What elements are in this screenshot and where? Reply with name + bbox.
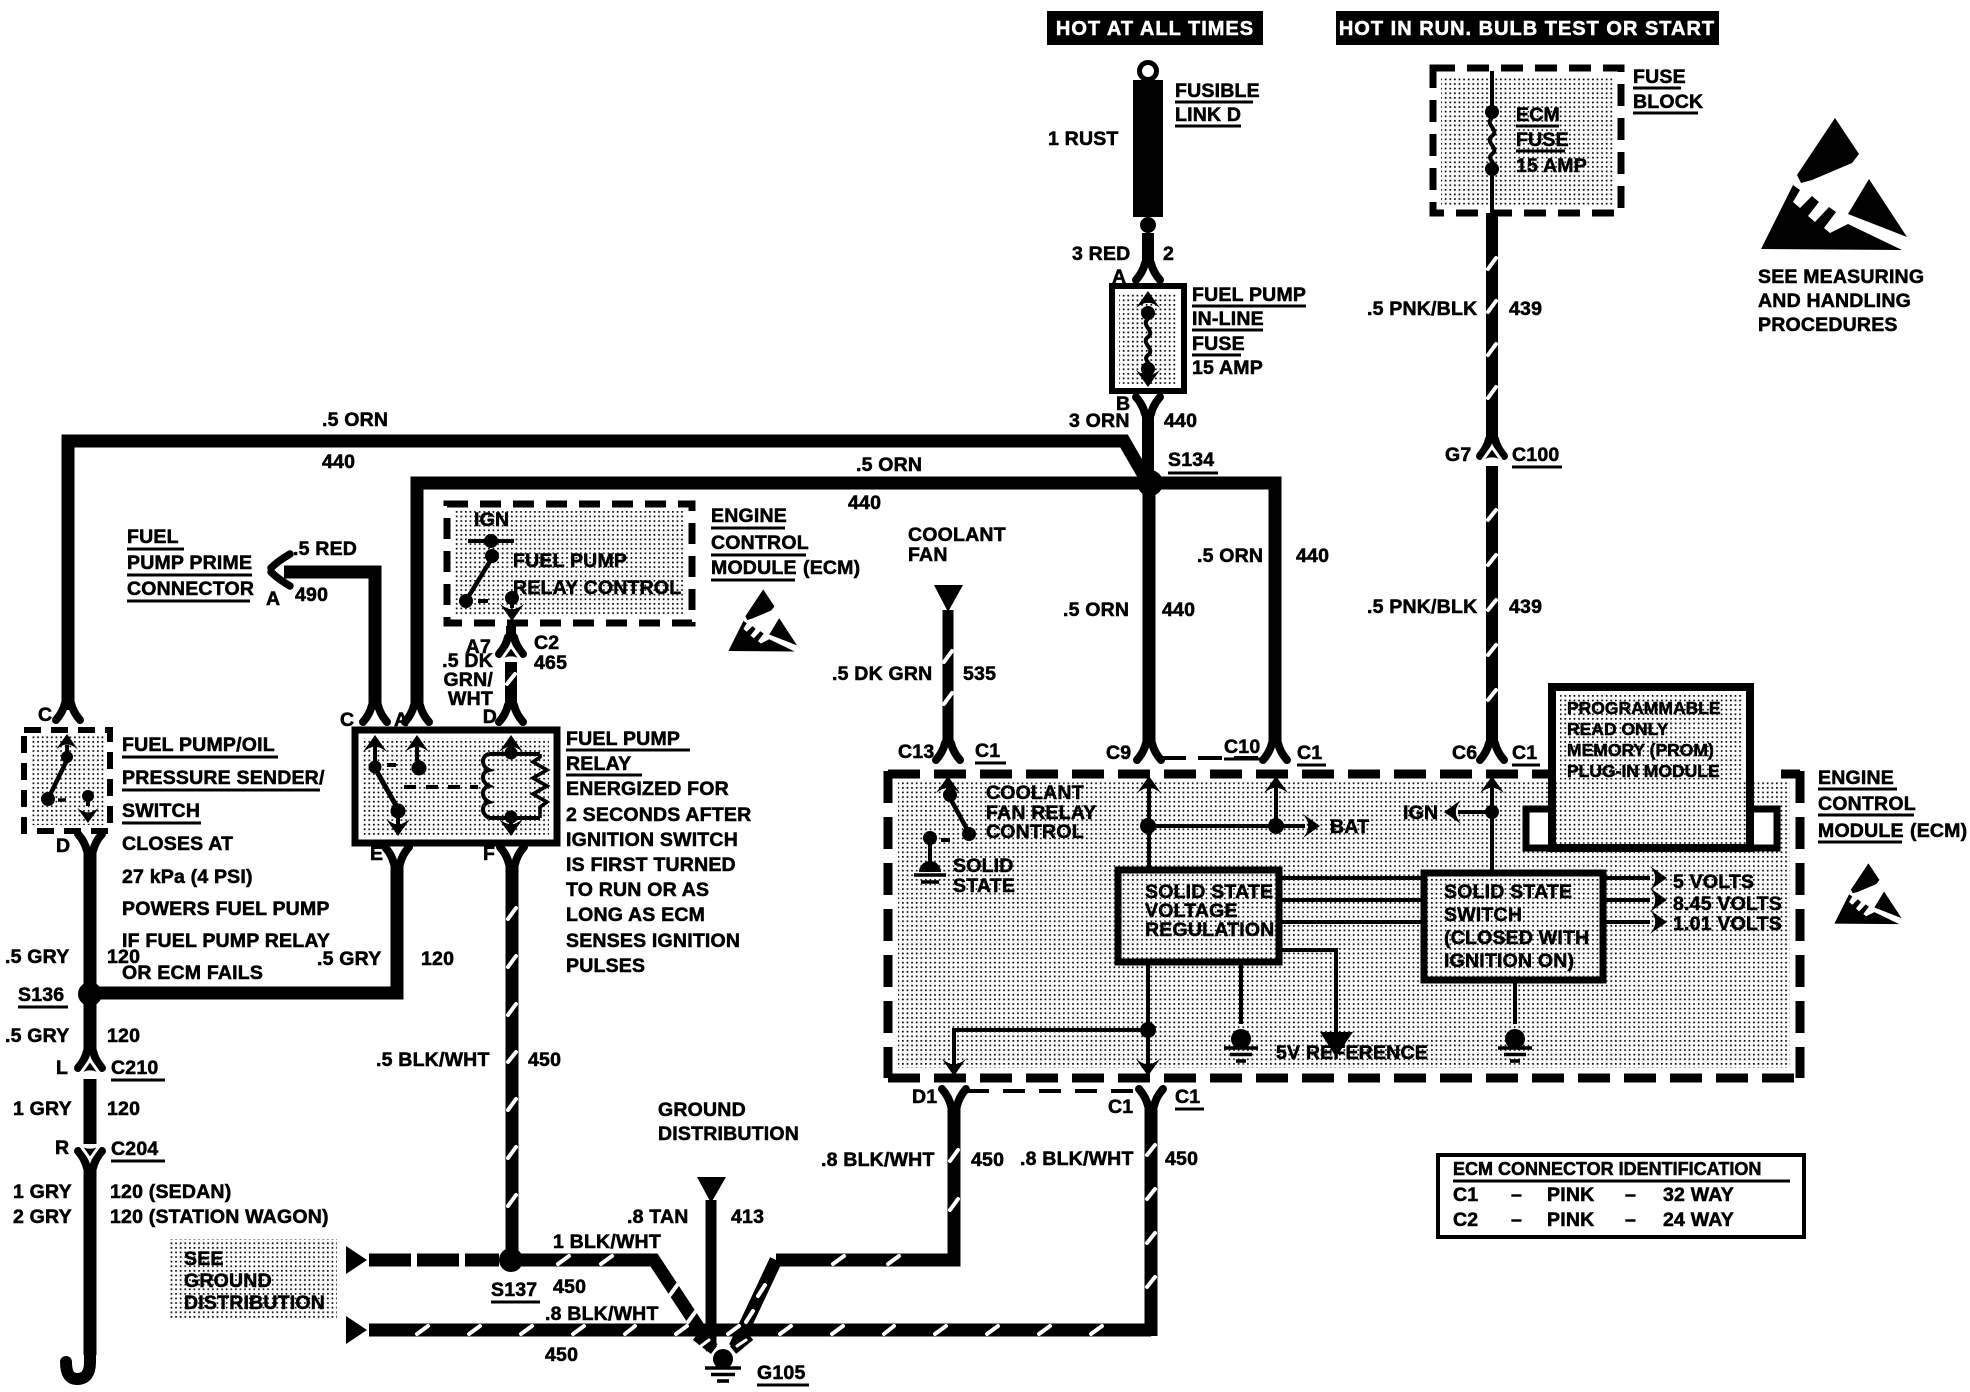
wire D1 .8 BLK/WHT 450 bbox=[776, 1104, 954, 1260]
connector C100 pair bbox=[1480, 439, 1504, 456]
coolant ground arrow .8 TAN bbox=[697, 1177, 726, 1203]
fuse element symbol bbox=[1136, 291, 1160, 308]
svg-text:–: – bbox=[1625, 1209, 1636, 1231]
svg-text:PINK: PINK bbox=[1547, 1209, 1594, 1231]
svg-text:OR ECM FAILS: OR ECM FAILS bbox=[122, 962, 263, 984]
connector fork C10 bbox=[1263, 743, 1287, 760]
svg-text:SOLID: SOLID bbox=[953, 855, 1014, 877]
wire sender D to S136 bbox=[84, 848, 97, 988]
svg-text:.5 ORN: .5 ORN bbox=[1197, 545, 1263, 567]
svg-text:5V REFERENCE: 5V REFERENCE bbox=[1276, 1042, 1428, 1064]
svg-text:C2: C2 bbox=[1453, 1209, 1478, 1231]
svg-text:120: 120 bbox=[107, 1025, 140, 1047]
svg-text:HOT AT ALL TIMES: HOT AT ALL TIMES bbox=[1056, 18, 1254, 40]
svg-text:FUSE: FUSE bbox=[1633, 66, 1686, 88]
dashed wire to S137 bbox=[369, 1254, 499, 1267]
wire .5 ORN 440 to relay A bbox=[417, 483, 1141, 707]
svg-text:3 ORN: 3 ORN bbox=[1069, 410, 1130, 432]
svg-text:8.45 VOLTS: 8.45 VOLTS bbox=[1673, 893, 1782, 915]
svg-text:5 VOLTS: 5 VOLTS bbox=[1673, 871, 1754, 893]
svg-text:SENSES IGNITION: SENSES IGNITION bbox=[566, 930, 740, 952]
svg-text:BLOCK: BLOCK bbox=[1633, 91, 1703, 113]
connector fork relay A bbox=[405, 705, 429, 722]
svg-text:1 BLK/WHT: 1 BLK/WHT bbox=[553, 1231, 661, 1253]
solid state contact symbol bbox=[928, 844, 932, 862]
junction dot C9 BAT bbox=[1140, 818, 1156, 834]
svg-text:450: 450 bbox=[545, 1344, 578, 1366]
svg-text:L: L bbox=[56, 1057, 68, 1079]
svg-text:CONTROL: CONTROL bbox=[711, 532, 809, 554]
dashed link D1 C1 bbox=[967, 1089, 1138, 1093]
svg-text:IF FUEL PUMP RELAY: IF FUEL PUMP RELAY bbox=[122, 930, 330, 952]
svg-text:FUEL PUMP/OIL: FUEL PUMP/OIL bbox=[122, 734, 275, 756]
splice S134 dot bbox=[1137, 470, 1163, 496]
svg-text:FUEL PUMP: FUEL PUMP bbox=[1192, 284, 1306, 306]
svg-text:R: R bbox=[55, 1137, 69, 1159]
ground under switch bbox=[1513, 980, 1517, 1024]
svg-text:ECM: ECM bbox=[1516, 104, 1560, 126]
fuel pump relay control box bbox=[454, 511, 685, 616]
svg-text:PROCEDURES: PROCEDURES bbox=[1758, 314, 1898, 336]
connector A fork bbox=[1136, 263, 1160, 280]
svg-text:450: 450 bbox=[971, 1149, 1004, 1171]
ESD warning symbol large bbox=[1761, 118, 1907, 250]
svg-text:C1: C1 bbox=[1175, 1086, 1200, 1108]
fuel pump oil pressure sender box bbox=[30, 736, 104, 825]
relay switch bbox=[369, 761, 382, 774]
svg-text:STATE: STATE bbox=[953, 875, 1015, 897]
svg-text:465: 465 bbox=[534, 652, 567, 674]
svg-text:ENGINE: ENGINE bbox=[711, 505, 787, 527]
svg-text:.5 RED: .5 RED bbox=[293, 538, 357, 560]
svg-text:DISTRIBUTION: DISTRIBUTION bbox=[658, 1123, 799, 1145]
svg-text:.5 ORN: .5 ORN bbox=[322, 409, 388, 431]
connector fork C1 bottom bbox=[1139, 1089, 1163, 1106]
note SEE GROUND DISTRIBUTION bbox=[168, 1239, 337, 1320]
connector fork C6 bbox=[1480, 743, 1504, 760]
connector B fork bbox=[1136, 397, 1160, 414]
connector fork relay E bbox=[385, 847, 409, 864]
svg-text:GROUND: GROUND bbox=[184, 1270, 272, 1292]
power feed banner HOT IN RUN BULB TEST OR START bbox=[1336, 11, 1719, 45]
svg-text:F: F bbox=[483, 843, 495, 865]
svg-text:C1: C1 bbox=[1512, 742, 1537, 764]
splice S136 dot bbox=[78, 982, 102, 1006]
svg-text:C1: C1 bbox=[1453, 1184, 1478, 1206]
svg-text:RELAY: RELAY bbox=[566, 753, 631, 775]
svg-text:.8 BLK/WHT: .8 BLK/WHT bbox=[1020, 1148, 1134, 1170]
svg-text:GROUND: GROUND bbox=[658, 1099, 746, 1121]
svg-text:FUEL: FUEL bbox=[127, 526, 179, 548]
svg-text:IS FIRST TURNED: IS FIRST TURNED bbox=[566, 854, 736, 876]
svg-text:CONNECTOR: CONNECTOR bbox=[127, 578, 254, 600]
svg-text:CONTROL: CONTROL bbox=[1818, 793, 1916, 815]
svg-text:–: – bbox=[1511, 1209, 1522, 1231]
svg-text:PRESSURE SENDER/: PRESSURE SENDER/ bbox=[122, 767, 325, 789]
svg-text:ECM CONNECTOR IDENTIFICATION: ECM CONNECTOR IDENTIFICATION bbox=[1453, 1159, 1761, 1179]
svg-text:2 GRY: 2 GRY bbox=[13, 1206, 72, 1228]
sender switch symbol bbox=[56, 734, 78, 749]
svg-text:PLUG-IN MODULE: PLUG-IN MODULE bbox=[1567, 761, 1720, 781]
5V reference line bbox=[1279, 950, 1336, 1032]
ground under vreg bbox=[1239, 962, 1243, 1024]
svg-text:440: 440 bbox=[322, 451, 355, 473]
wire .5 RED to relay C bbox=[284, 572, 375, 707]
wire .5 DK GRN 535 bbox=[943, 610, 954, 745]
coolant fan relay switch bbox=[943, 788, 957, 802]
connector fork relay D bbox=[499, 705, 523, 722]
svg-text:.5 GRY: .5 GRY bbox=[5, 1025, 69, 1047]
junction dot vreg C1 bbox=[1140, 1022, 1156, 1038]
svg-text:.5 DK GRN: .5 DK GRN bbox=[832, 663, 932, 685]
wire S136 to relay E bbox=[96, 861, 397, 993]
svg-text:C2: C2 bbox=[534, 632, 559, 654]
svg-text:2 SECONDS AFTER: 2 SECONDS AFTER bbox=[566, 804, 751, 826]
svg-text:D1: D1 bbox=[912, 1086, 937, 1108]
svg-text:120: 120 bbox=[107, 1098, 140, 1120]
wire C9 internal bbox=[1147, 788, 1151, 870]
fusible link D symbol bbox=[1140, 63, 1157, 80]
relay pin C arrow bbox=[363, 735, 387, 752]
svg-text:AND HANDLING: AND HANDLING bbox=[1758, 290, 1911, 312]
wire bottom 450 horizontal bbox=[369, 1324, 1151, 1337]
svg-text:.5 PNK/BLK: .5 PNK/BLK bbox=[1367, 596, 1477, 618]
svg-text:440: 440 bbox=[848, 492, 881, 514]
svg-text:FUSIBLE: FUSIBLE bbox=[1175, 80, 1260, 102]
svg-text:.5 ORN: .5 ORN bbox=[856, 454, 922, 476]
dashed link C9 C10 bbox=[1162, 756, 1268, 760]
wire 439 pnk/blk lower bbox=[1486, 466, 1498, 743]
wire fuse B to S134 bbox=[1142, 410, 1154, 478]
svg-text:ENERGIZED FOR: ENERGIZED FOR bbox=[566, 778, 729, 800]
svg-text:C: C bbox=[38, 704, 52, 726]
svg-text:FUSE: FUSE bbox=[1192, 333, 1245, 355]
svg-text:C10: C10 bbox=[1224, 736, 1260, 758]
svg-text:IGNITION SWITCH: IGNITION SWITCH bbox=[566, 829, 738, 851]
svg-text:1 RUST: 1 RUST bbox=[1048, 128, 1119, 150]
connector fork C sender bbox=[56, 703, 80, 720]
coolant fan arrow bbox=[934, 585, 963, 612]
svg-text:FUSE: FUSE bbox=[1516, 129, 1569, 151]
svg-text:HOT IN RUN. BULB TEST OR START: HOT IN RUN. BULB TEST OR START bbox=[1339, 18, 1715, 40]
svg-text:440: 440 bbox=[1162, 599, 1195, 621]
svg-text:C100: C100 bbox=[1512, 444, 1559, 466]
svg-text:.5 ORN: .5 ORN bbox=[1063, 599, 1129, 621]
svg-text:C13: C13 bbox=[898, 741, 934, 763]
connector C2 pair bbox=[499, 637, 523, 654]
svg-text:PULSES: PULSES bbox=[566, 955, 645, 977]
svg-text:C210: C210 bbox=[111, 1057, 158, 1079]
fuse block box bbox=[1441, 76, 1613, 205]
svg-text:(ECM): (ECM) bbox=[1910, 820, 1967, 842]
wire C6 internal bbox=[1490, 788, 1494, 872]
svg-text:120: 120 bbox=[107, 946, 140, 968]
svg-text:SWITCH: SWITCH bbox=[1444, 904, 1522, 926]
svg-text:C9: C9 bbox=[1106, 742, 1131, 764]
wire .5 DK GRN/WHT bbox=[506, 626, 516, 638]
svg-text:.5 GRY: .5 GRY bbox=[317, 948, 381, 970]
ECM pin arrow C6 bbox=[1480, 776, 1504, 793]
offpage arrow upper bbox=[346, 1246, 367, 1274]
svg-text:1.01 VOLTS: 1.01 VOLTS bbox=[1673, 913, 1782, 935]
ECM pin arrow C13 bbox=[936, 776, 960, 793]
wire .5 ORN 440 down to C9 bbox=[1143, 489, 1156, 745]
svg-text:G7: G7 bbox=[1445, 444, 1471, 466]
svg-text:C1: C1 bbox=[1297, 742, 1322, 764]
svg-text:C204: C204 bbox=[111, 1138, 158, 1160]
G105 stub left bbox=[696, 1336, 714, 1350]
svg-text:2: 2 bbox=[1163, 243, 1174, 265]
connector fork C13 bbox=[936, 743, 960, 760]
connector fork C9 bbox=[1137, 743, 1161, 760]
svg-text:MEMORY (PROM): MEMORY (PROM) bbox=[1567, 740, 1714, 760]
connector fork relay F bbox=[500, 847, 524, 864]
wire C204 down to bottom hook bbox=[84, 1167, 97, 1355]
svg-text:450: 450 bbox=[528, 1049, 561, 1071]
splice S137 dot bbox=[499, 1248, 523, 1272]
svg-text:D: D bbox=[483, 706, 497, 728]
BAT line bbox=[1148, 824, 1305, 828]
wire S137 to G105 bbox=[520, 1260, 712, 1348]
svg-text:MODULE: MODULE bbox=[711, 557, 797, 579]
lines voltage reg to switch bbox=[1279, 876, 1424, 880]
ESD warning symbol small right bbox=[1834, 863, 1901, 924]
wire C10 internal bbox=[1274, 788, 1278, 822]
svg-text:450: 450 bbox=[1165, 1148, 1198, 1170]
svg-text:PROGRAMMABLE: PROGRAMMABLE bbox=[1567, 698, 1721, 718]
connector fork relay C bbox=[363, 705, 387, 722]
svg-text:FUEL PUMP: FUEL PUMP bbox=[566, 728, 680, 750]
fuel pump in-line fuse box bbox=[1119, 293, 1177, 384]
wire 439 pnk/blk upper bbox=[1486, 213, 1498, 441]
wire vreg to C1 exit bbox=[1146, 962, 1150, 1066]
svg-text:.5 BLK/WHT: .5 BLK/WHT bbox=[376, 1049, 490, 1071]
wire vreg to D1 exit bbox=[954, 1030, 1142, 1066]
svg-text:439: 439 bbox=[1509, 298, 1542, 320]
svg-text:S137: S137 bbox=[491, 1279, 537, 1301]
svg-text:BAT: BAT bbox=[1330, 816, 1369, 838]
svg-text:15 AMP: 15 AMP bbox=[1192, 357, 1263, 379]
svg-text:TO RUN OR AS: TO RUN OR AS bbox=[566, 879, 709, 901]
svg-text:IGNITION ON): IGNITION ON) bbox=[1444, 950, 1574, 972]
svg-text:FAN: FAN bbox=[908, 544, 948, 566]
engine control module box bbox=[898, 781, 1790, 1068]
svg-text:PINK: PINK bbox=[1547, 1184, 1594, 1206]
IGN arrow bbox=[1458, 810, 1492, 814]
ESD warning symbol small left bbox=[728, 589, 797, 651]
wire .5 ORN 440 branch to C10 bbox=[1158, 483, 1275, 745]
svg-text:D: D bbox=[56, 835, 70, 857]
G105 stub right bbox=[733, 1336, 750, 1350]
svg-text:1 GRY: 1 GRY bbox=[13, 1098, 72, 1120]
junction dot C10 BAT bbox=[1268, 818, 1284, 834]
svg-text:15 AMP: 15 AMP bbox=[1516, 155, 1587, 177]
svg-text:C1: C1 bbox=[975, 740, 1000, 762]
svg-text:.8 BLK/WHT: .8 BLK/WHT bbox=[821, 1149, 935, 1171]
ECM exit arrow D1 bbox=[942, 1059, 966, 1076]
PROM plug-in module box bbox=[1526, 809, 1552, 848]
ECM fuse element bbox=[1490, 71, 1494, 106]
svg-text:450: 450 bbox=[553, 1276, 586, 1298]
relay linkage dashed bbox=[404, 785, 478, 789]
svg-text:A: A bbox=[266, 588, 280, 610]
svg-text:CONTROL: CONTROL bbox=[986, 821, 1084, 843]
svg-text:C1: C1 bbox=[1108, 1096, 1133, 1118]
svg-text:IGN: IGN bbox=[474, 509, 509, 531]
connector fork D sender bbox=[78, 834, 102, 851]
svg-text:535: 535 bbox=[963, 663, 996, 685]
table ECM CONNECTOR IDENTIFICATION bbox=[1438, 1155, 1804, 1237]
wire .5 BLK/WHT 450 bbox=[506, 861, 519, 1252]
svg-text:IGN: IGN bbox=[1403, 802, 1438, 824]
relay coil bbox=[505, 747, 518, 760]
svg-text:24 WAY: 24 WAY bbox=[1663, 1209, 1734, 1231]
fuel pump prime connector fork bbox=[271, 554, 290, 586]
power feed banner HOT AT ALL TIMES bbox=[1047, 11, 1263, 45]
wire fusible link to fuse A bbox=[1142, 233, 1154, 263]
svg-text:REGULATION: REGULATION bbox=[1145, 919, 1274, 941]
svg-text:S134: S134 bbox=[1168, 449, 1214, 471]
svg-text:C6: C6 bbox=[1452, 742, 1477, 764]
svg-text:.5 GRY: .5 GRY bbox=[5, 946, 69, 968]
svg-text:POWERS FUEL PUMP: POWERS FUEL PUMP bbox=[122, 898, 330, 920]
svg-text:PUMP PRIME: PUMP PRIME bbox=[127, 552, 252, 574]
relay pin A arrow bbox=[405, 735, 429, 752]
svg-text:IN-LINE: IN-LINE bbox=[1192, 308, 1264, 330]
svg-text:(CLOSED WITH: (CLOSED WITH bbox=[1444, 927, 1589, 949]
svg-text:3 RED: 3 RED bbox=[1072, 243, 1130, 265]
ECM pin arrow C9 bbox=[1137, 776, 1161, 793]
svg-text:LONG AS ECM: LONG AS ECM bbox=[566, 904, 705, 926]
svg-text:.8 BLK/WHT: .8 BLK/WHT bbox=[545, 1303, 659, 1325]
svg-text:SWITCH: SWITCH bbox=[122, 800, 200, 822]
svg-text:RELAY CONTROL: RELAY CONTROL bbox=[513, 577, 681, 599]
connector C204 pair bbox=[78, 1151, 102, 1168]
svg-text:–: – bbox=[1625, 1184, 1636, 1206]
svg-text:439: 439 bbox=[1509, 596, 1542, 618]
solid state voltage regulation box bbox=[1125, 877, 1272, 955]
output arrows volts bbox=[1603, 876, 1650, 880]
fuel pump relay box bbox=[363, 738, 549, 835]
svg-text:SOLID STATE: SOLID STATE bbox=[1444, 881, 1572, 903]
svg-text:1 GRY: 1 GRY bbox=[13, 1181, 72, 1203]
svg-text:DISTRIBUTION: DISTRIBUTION bbox=[184, 1292, 325, 1314]
relay pin D arrow bbox=[499, 735, 523, 752]
hatch marks on wires bbox=[1488, 258, 1496, 269]
svg-text:440: 440 bbox=[1296, 545, 1329, 567]
offpage arrow lower bbox=[346, 1316, 367, 1344]
svg-text:–: – bbox=[1511, 1184, 1522, 1206]
svg-text:440: 440 bbox=[1164, 410, 1197, 432]
connector fork D1 bbox=[942, 1089, 966, 1106]
svg-text:(ECM): (ECM) bbox=[803, 557, 860, 579]
wire C210 to C204 bbox=[84, 1079, 97, 1144]
svg-text:E: E bbox=[370, 843, 383, 865]
wire S136 down bbox=[84, 1000, 97, 1054]
connector C210 pair bbox=[78, 1051, 102, 1068]
svg-text:ENGINE: ENGINE bbox=[1818, 767, 1894, 789]
svg-text:READ ONLY: READ ONLY bbox=[1567, 719, 1669, 739]
wire .5 ORN 440 top horizontal bbox=[68, 441, 1146, 710]
svg-text:120: 120 bbox=[421, 948, 454, 970]
svg-text:120 (STATION WAGON): 120 (STATION WAGON) bbox=[110, 1206, 329, 1228]
svg-text:S136: S136 bbox=[18, 984, 64, 1006]
svg-text:MODULE: MODULE bbox=[1818, 820, 1904, 842]
svg-text:G105: G105 bbox=[757, 1362, 806, 1384]
svg-text:SEE MEASURING: SEE MEASURING bbox=[1758, 266, 1924, 288]
svg-text:.5 PNK/BLK: .5 PNK/BLK bbox=[1367, 298, 1477, 320]
svg-text:CLOSES AT: CLOSES AT bbox=[122, 833, 233, 855]
ECM pin arrow C10 bbox=[1264, 776, 1288, 793]
svg-text:413: 413 bbox=[731, 1206, 764, 1228]
svg-text:LINK D: LINK D bbox=[1175, 104, 1241, 126]
svg-text:32 WAY: 32 WAY bbox=[1663, 1184, 1734, 1206]
solid state switch box bbox=[1431, 880, 1596, 973]
svg-text:490: 490 bbox=[295, 584, 328, 606]
svg-text:27 kPa (4 PSI): 27 kPa (4 PSI) bbox=[122, 866, 253, 888]
svg-text:SEE: SEE bbox=[184, 1248, 224, 1270]
wire C1 .8 BLK/WHT 450 bbox=[1145, 1104, 1158, 1336]
svg-text:COOLANT: COOLANT bbox=[908, 524, 1006, 546]
svg-text:120 (SEDAN): 120 (SEDAN) bbox=[110, 1181, 231, 1203]
relay control switch symbol bbox=[468, 539, 514, 543]
svg-text:.8 TAN: .8 TAN bbox=[627, 1206, 689, 1228]
ECM exit arrow C1 bbox=[1136, 1059, 1160, 1076]
svg-text:FUEL PUMP: FUEL PUMP bbox=[513, 550, 627, 572]
ground G105 bbox=[713, 1349, 733, 1369]
svg-text:COOLANT: COOLANT bbox=[986, 782, 1084, 804]
